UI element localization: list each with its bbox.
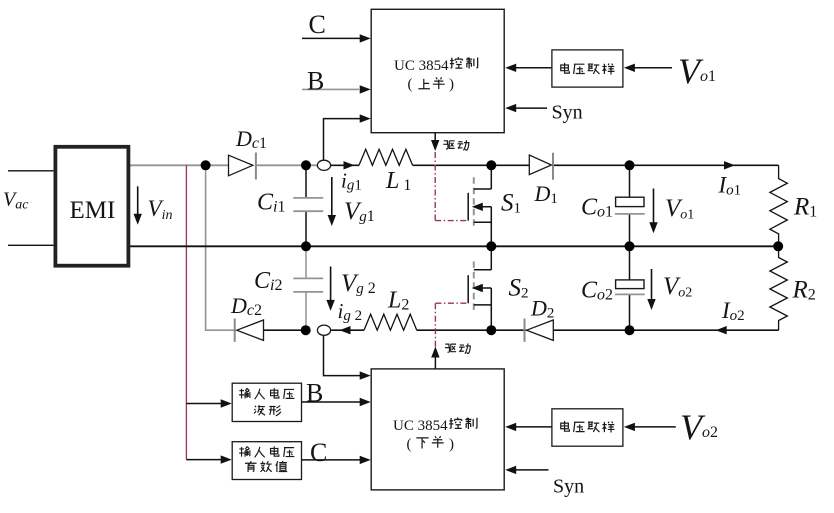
svg-text:L2: L2 <box>387 288 409 314</box>
svg-text:Dc1: Dc1 <box>235 126 267 152</box>
svg-text:D2: D2 <box>530 296 554 322</box>
svg-text:B: B <box>306 379 323 408</box>
svg-text:Co2: Co2 <box>581 278 613 304</box>
svg-text:R1: R1 <box>793 194 817 221</box>
svg-text:ig1: ig1 <box>341 169 362 194</box>
svg-text:Vo1: Vo1 <box>678 51 716 91</box>
svg-text:Vo2: Vo2 <box>680 407 718 447</box>
svg-text:Co1: Co1 <box>581 195 613 221</box>
svg-text:Ci1: Ci1 <box>257 190 285 216</box>
svg-text:Vg1: Vg1 <box>344 198 375 225</box>
svg-text:Syn: Syn <box>553 476 584 498</box>
svg-text:Vg 2: Vg 2 <box>341 270 376 297</box>
svg-text:S1: S1 <box>501 190 521 217</box>
svg-text:): ) <box>449 76 454 92</box>
svg-text:S2: S2 <box>509 275 529 302</box>
svg-text:): ) <box>449 437 454 453</box>
svg-text:L 1: L 1 <box>385 168 411 194</box>
svg-text:UC 3854: UC 3854 <box>393 418 448 434</box>
svg-text:Dc2: Dc2 <box>230 293 262 319</box>
svg-text:Syn: Syn <box>552 102 583 124</box>
svg-text:Vac: Vac <box>3 189 29 213</box>
svg-text:(: ( <box>408 76 413 92</box>
svg-text:C: C <box>309 10 326 39</box>
svg-text:Io1: Io1 <box>718 173 742 199</box>
svg-text:Vo2: Vo2 <box>663 273 692 301</box>
svg-text:Ci2: Ci2 <box>254 268 282 294</box>
svg-text:(: ( <box>407 437 412 453</box>
svg-text:Vin: Vin <box>148 196 173 223</box>
svg-text:C: C <box>310 438 327 467</box>
svg-text:Vo1: Vo1 <box>665 195 694 223</box>
svg-text:B: B <box>307 66 324 95</box>
svg-text:R2: R2 <box>792 277 816 304</box>
svg-text:UC 3854: UC 3854 <box>394 58 449 74</box>
svg-text:D1: D1 <box>534 181 558 207</box>
svg-text:ig 2: ig 2 <box>338 299 363 324</box>
svg-text:EMI: EMI <box>70 197 116 224</box>
svg-text:Io2: Io2 <box>721 298 745 324</box>
